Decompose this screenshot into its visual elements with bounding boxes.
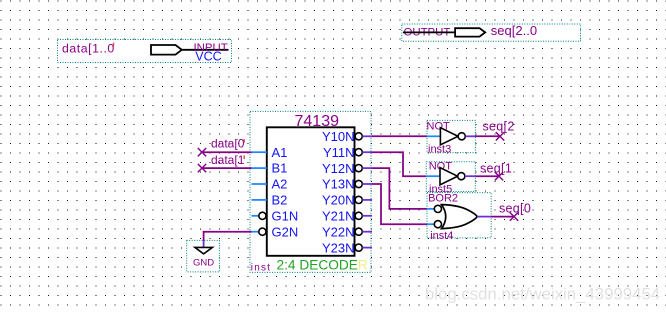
74139 chip body [267, 127, 355, 256]
wire Y11N to NOT2 [372, 152, 426, 176]
svg-text:74139: 74139 [295, 113, 340, 130]
wire data[1] to B1 [202, 167, 252, 169]
pin stub Y21N [362, 215, 372, 217]
pin stub Y13N [362, 183, 372, 185]
svg-text:B1: B1 [272, 161, 288, 176]
red tick after data[1..0] [113, 43, 114, 47]
NOT gate U2 triangle [440, 128, 458, 145]
BOR2 input stub A [427, 208, 434, 210]
pin stub Y20N [362, 199, 372, 201]
svg-text:data[1..0: data[1..0 [62, 42, 115, 56]
wire Y13N to BOR2 input B [372, 184, 427, 224]
svg-text:inst: inst [251, 263, 271, 274]
bubble Y20N [355, 196, 362, 203]
bubble Y12N [355, 165, 362, 172]
bubble Y21N [355, 212, 362, 219]
74139 decoder U1 selection box [250, 111, 371, 272]
NOT gate U2 bubble [458, 133, 465, 140]
bubble Y10N [355, 133, 362, 140]
svg-text:Y21N: Y21N [322, 208, 355, 223]
red tick after data[0] [244, 139, 245, 143]
svg-text:Y11N: Y11N [323, 145, 355, 160]
open end X seq[1] [495, 172, 503, 180]
NOT gate U2 input stub [427, 135, 440, 137]
svg-text:BOR2: BOR2 [428, 192, 458, 204]
ground symbol selection box [187, 240, 220, 272]
svg-text:seq[1: seq[1 [480, 162, 512, 176]
svg-text:seq[0: seq[0 [499, 201, 531, 215]
NOT gate U3 input stub [426, 175, 440, 177]
pin stub A1 [252, 151, 267, 153]
svg-text:G2N: G2N [272, 224, 299, 239]
NOT gate U2 selection box [427, 120, 475, 152]
BOR2 OR gate body [442, 205, 478, 229]
NOT gate U2 output stub [465, 135, 475, 137]
svg-text:Y22N: Y22N [322, 224, 355, 239]
BOR2 input bubble A [434, 205, 441, 212]
wire data[0] to A1 [202, 151, 252, 153]
bubble G1N [259, 212, 266, 219]
ground stub [203, 241, 205, 248]
svg-text:Y20N: Y20N [322, 193, 355, 208]
svg-text:blog.csdn.net/weixin_43999454: blog.csdn.net/weixin_43999454 [425, 285, 660, 304]
input pin arrow shape [151, 45, 182, 55]
output pin arrow shape [455, 28, 485, 36]
input pin symbol data[1..0] selection box [58, 40, 232, 63]
pin stub B2 [252, 199, 267, 201]
pin stub B1 [252, 167, 267, 169]
svg-text:data[1: data[1 [211, 153, 245, 167]
bubble Y23N [355, 244, 362, 251]
svg-text:Y12N: Y12N [322, 161, 355, 176]
svg-text:A1: A1 [272, 145, 288, 160]
pin stub A2 [252, 183, 267, 185]
svg-text:Y13N: Y13N [322, 177, 355, 192]
output pin wire line [403, 31, 455, 33]
open end X seq[2] [496, 132, 504, 140]
open end X data[1] [198, 164, 206, 172]
wire G2N to GND [204, 232, 252, 241]
svg-text:B2: B2 [272, 193, 288, 208]
input pin wire line [182, 49, 229, 51]
wire NOT2 to seq[1] [475, 175, 499, 177]
NOT gate U3 triangle [440, 168, 458, 185]
BOR2 input bubble B [434, 221, 441, 228]
NOT gate U3 output stub [465, 175, 475, 177]
BOR2 gate U4 selection box [427, 193, 491, 238]
pin stub Y12N [362, 167, 372, 169]
svg-text:VCC: VCC [195, 50, 221, 64]
open end X seq[0] [510, 212, 518, 220]
svg-text:seq[2..0: seq[2..0 [491, 23, 537, 38]
pin stub Y11N [362, 151, 372, 153]
svg-text:inst3: inst3 [428, 143, 451, 155]
svg-text:G1N: G1N [272, 208, 299, 223]
pin stub Y23N [362, 247, 372, 249]
svg-text:data[0: data[0 [211, 137, 245, 151]
svg-text:2:4 DECODER: 2:4 DECODER [277, 258, 368, 273]
bubble Y22N [355, 228, 362, 235]
BOR2 input stub B [427, 223, 434, 225]
wire Y12N to BOR2 input A [372, 168, 427, 209]
svg-text:A2: A2 [272, 177, 288, 192]
svg-text:seq[2: seq[2 [483, 120, 515, 134]
pin stub G1N [252, 215, 259, 217]
BOR2 output stub [477, 216, 491, 218]
svg-text:inst4: inst4 [430, 230, 453, 242]
svg-text:GND: GND [193, 257, 214, 268]
pin stub Y10N [362, 135, 372, 137]
wire Y10N to NOT1 [372, 135, 427, 137]
svg-text:Y10N: Y10N [322, 129, 355, 144]
bubble Y13N [355, 180, 362, 187]
wire BOR2 to seq[0] [491, 216, 514, 218]
wire NOT1 to seq[2] [475, 135, 500, 137]
NOT gate U3 bubble [458, 173, 465, 180]
NOT gate U3 selection box [426, 162, 475, 192]
red tick after data[1] [244, 155, 245, 159]
svg-text:Y23N: Y23N [322, 240, 355, 255]
open end X data[0] [198, 148, 206, 156]
pin stub Y22N [362, 231, 372, 233]
pin stub G2N [252, 231, 259, 233]
bubble Y11N [355, 149, 362, 156]
bubble G2N [259, 228, 266, 235]
output pin symbol seq[2..0] selection box [402, 24, 581, 41]
ground symbol [195, 247, 213, 254]
